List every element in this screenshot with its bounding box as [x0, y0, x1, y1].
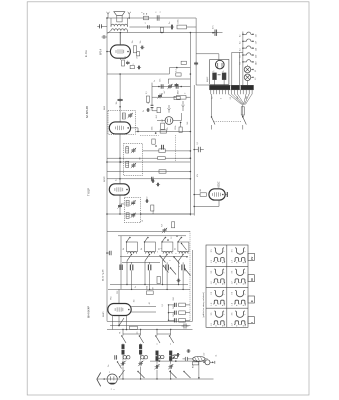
- wire v4 stem1: [112, 316, 114, 330]
- fuse Po1: [241, 105, 244, 116]
- wire if2 line: [143, 150, 159, 152]
- node node avc: [190, 131, 192, 133]
- wire Tr2 sec right down: [126, 30, 128, 32]
- capacitor padder pair 3: [157, 355, 164, 358]
- svg-text:1k: 1k: [141, 248, 143, 250]
- coil wafer: [157, 277, 160, 284]
- resistor R on y171: [159, 170, 166, 173]
- label kb unit 4: [175, 248, 177, 250]
- label tube label V2 adj: [104, 105, 106, 110]
- wire Tr2 sec left down: [108, 30, 111, 33]
- switch pushbutton unit 3 lever: [161, 237, 166, 243]
- resistor R tone: [130, 66, 134, 69]
- node node x120: [119, 106, 121, 108]
- capacitor C cl a: [160, 79, 163, 89]
- resistor R cl v: [157, 107, 161, 112]
- resistor R seg2: [172, 222, 175, 228]
- switch wafer row 1 half 1 fixed contact b: [220, 258, 225, 264]
- coil L osc b: [126, 213, 129, 219]
- wire eye right: [225, 194, 227, 196]
- svg-text:L19: L19: [204, 353, 206, 356]
- node node det v: [180, 122, 182, 124]
- wire y158 b: [165, 157, 190, 159]
- capacitor C filter 1 electrolytic: [212, 71, 216, 79]
- svg-text:30n: 30n: [160, 79, 162, 82]
- node node V2 out: [137, 131, 139, 133]
- wire fer drop: [198, 362, 200, 378]
- label tube label V4 adj: [103, 311, 105, 317]
- wire rf branch 3 mid: [156, 344, 158, 345]
- label pins row 2 half 2: [232, 270, 247, 284]
- capacitor padder pair 4: [171, 355, 178, 358]
- wire kb top bus: [118, 235, 186, 237]
- resistor R det v: [175, 126, 182, 133]
- svg-text:III: III: [250, 278, 254, 281]
- wire filter1 down: [214, 80, 216, 86]
- svg-text:100k: 100k: [151, 126, 153, 130]
- switch wafer row 2 half 2 moving contact: [235, 269, 245, 276]
- wire kb 2 down2: [149, 273, 150, 291]
- switch pushbutton unit 4 lever: [177, 237, 182, 243]
- svg-text:0,3: 0,3: [240, 35, 242, 37]
- wire right bus C: [193, 85, 195, 216]
- node node bot a: [173, 357, 175, 359]
- switch contact ant lever: [119, 370, 125, 378]
- switch wafer row 1 half 1 moving contact: [214, 248, 224, 255]
- capacitor C bias 2: [174, 311, 176, 315]
- band tab I: [248, 317, 254, 324]
- wire v4 stem3: [126, 316, 128, 330]
- resistor R eye series: [200, 189, 207, 197]
- capacitor C bot a: [176, 353, 180, 357]
- wire IF line: [136, 131, 191, 133]
- coil L4 (iron core): [169, 351, 172, 361]
- coil kb 3: [163, 252, 172, 254]
- svg-text:1k: 1k: [175, 248, 177, 250]
- switch wafer row 3 half 2 fixed contact a: [234, 300, 239, 306]
- svg-text:0,1: 0,1: [146, 92, 148, 95]
- wire osc out: [141, 213, 191, 215]
- capacitor C bias 1: [174, 303, 176, 307]
- node node eye cap: [193, 149, 195, 151]
- resistor R bias 2: [168, 311, 190, 315]
- wire kb 1 down: [126, 261, 127, 285]
- svg-text:1n: 1n: [154, 80, 156, 82]
- wire kb 1 down2: [131, 273, 132, 291]
- capacitor C if dark: [162, 145, 164, 150]
- switch wafer row 1 half 1 fixed contact a: [213, 258, 218, 264]
- switch kb contact 3a: [163, 254, 168, 261]
- svg-text:C9: C9: [124, 203, 126, 205]
- svg-text:+1: +1: [222, 71, 224, 73]
- svg-text:12: 12: [171, 237, 173, 239]
- svg-text:220: 220: [255, 55, 257, 58]
- tube V1 6P14 output pentode: [99, 45, 131, 58]
- transformer Tr2 primary: [111, 24, 127, 26]
- resistor R conn: [192, 362, 198, 368]
- wire cl y79: [168, 78, 190, 80]
- wire bus y214: [107, 213, 194, 215]
- wire rf branch 1 mid: [122, 344, 124, 345]
- svg-text:5: 5: [170, 260, 172, 261]
- switch contact band switch 6: [169, 371, 176, 378]
- coil L1 (iron core): [122, 345, 125, 355]
- label minus link: [218, 74, 221, 76]
- node node HT: [212, 32, 214, 34]
- coil kb 2: [146, 252, 155, 254]
- wire V2 out down: [137, 128, 139, 132]
- wire filter2 down: [223, 80, 225, 86]
- wire v4 row b: [131, 311, 156, 313]
- wire v4 row a: [131, 306, 156, 308]
- svg-text:47k: 47k: [167, 127, 169, 130]
- coil L if2b: [126, 161, 129, 167]
- svg-text:6,3: 6,3: [255, 78, 257, 80]
- node node if mid: [155, 145, 157, 147]
- node node v3 stem b: [119, 178, 121, 180]
- node node rfm c: [196, 360, 198, 362]
- coil kb 4: [179, 252, 188, 254]
- coil L if2a: [126, 147, 129, 153]
- node node kb left edge: [106, 252, 108, 254]
- label kb box label: [103, 269, 105, 281]
- capacitor padder pair 2: [141, 356, 148, 359]
- resistor R32 screen: [147, 285, 154, 295]
- tube V4 6K4P RF amp: [108, 304, 131, 316]
- resistor R V1 screen: [137, 52, 140, 56]
- switch wafer row 2 half 1 moving contact: [214, 269, 224, 276]
- svg-text:L6: L6: [142, 220, 144, 222]
- wire kb left vert: [120, 236, 122, 290]
- coil L2 (iron core): [139, 345, 142, 355]
- wire rf branch 4 mid: [170, 344, 172, 345]
- wire V1 cathode down: [119, 58, 121, 60]
- node node bus top: [190, 32, 192, 34]
- wire V1 top stub: [119, 33, 121, 39]
- node node y162 left: [106, 161, 108, 163]
- svg-text:5n: 5n: [169, 22, 171, 24]
- resistor R cl 2M2: [177, 90, 187, 100]
- svg-text:10n: 10n: [140, 41, 142, 44]
- wire y67.6: [169, 67, 190, 69]
- wire rf branch 4 top: [170, 329, 171, 336]
- wire rf inter b: [157, 333, 171, 335]
- wire fork1 stub: [182, 101, 184, 105]
- coil L if1: [122, 113, 125, 119]
- wire shield partition: [174, 135, 176, 162]
- capacitor C V1 cathode: [126, 61, 130, 65]
- node node v3 stem a: [119, 161, 121, 163]
- capacitor C wafer b: [176, 279, 180, 282]
- node node v4 a: [118, 325, 120, 327]
- band switch table frame: [206, 245, 248, 327]
- svg-text:5: 5: [155, 12, 157, 13]
- node node eye bottom: [193, 206, 195, 208]
- svg-text:110: 110: [255, 34, 257, 37]
- resistor R if v: [152, 139, 155, 144]
- wire x169 riser: [168, 68, 170, 74]
- svg-text:P1: P1: [120, 332, 122, 334]
- resistor R V1 anode load: [174, 96, 180, 99]
- node node y74 b: [190, 73, 192, 75]
- node node V1 left: [106, 51, 108, 53]
- switch contact wafer contact 4: [184, 268, 190, 275]
- node node ant: [103, 378, 105, 380]
- svg-text:4: 4: [221, 98, 223, 99]
- wire lamp link: [247, 81, 249, 86]
- svg-text:240: 240: [255, 62, 257, 65]
- svg-text:6E5C: 6E5C: [218, 181, 221, 187]
- switch kb contact 1a: [127, 254, 132, 261]
- resistor R on speaker line: [142, 12, 149, 20]
- svg-text:0,1: 0,1: [197, 142, 199, 145]
- wire V3 down: [119, 195, 121, 214]
- wire eye bottom b: [194, 205, 219, 207]
- band tab III: [248, 275, 254, 282]
- switch mains voltage tap 150: [240, 46, 258, 51]
- capacitor C kb left electrolytic: [120, 265, 122, 271]
- capacitor C bot b: [186, 349, 190, 353]
- capacitor C bus B bypass: [194, 61, 198, 65]
- svg-text:R43: R43: [173, 313, 175, 316]
- svg-text:0,1: 0,1: [116, 179, 118, 182]
- switch wafer row 3 half 2 fixed contact b: [241, 300, 246, 306]
- capacitor C agc corner: [182, 322, 189, 329]
- svg-text:0,3: 0,3: [240, 55, 242, 57]
- switch wafer row 2 half 1 fixed contact a: [213, 279, 218, 285]
- wire rf branch 1 low: [122, 354, 124, 360]
- switch wafer row 3 half 1 moving contact: [214, 290, 224, 297]
- wire y162 bus: [107, 161, 190, 163]
- switch pushbutton unit 1 lever: [126, 237, 131, 243]
- switch wafer row 3 half 1 fixed contact b: [220, 300, 225, 306]
- switch mains voltage tap 110: [240, 32, 258, 37]
- resistor R coupling: [175, 68, 181, 76]
- svg-text:1M: 1M: [200, 189, 202, 192]
- switch contact wafer contact 3: [170, 267, 176, 274]
- terminal fork grid cap 1: [182, 105, 185, 111]
- label pins row 1 half 1: [211, 249, 226, 263]
- switch kb contact 2a: [145, 254, 150, 261]
- svg-text:6,3: 6,3: [212, 97, 214, 99]
- switch wafer row 2 half 2 fixed contact b: [241, 279, 246, 285]
- node node y158 l: [119, 157, 121, 159]
- resistor R avc: [160, 130, 166, 133]
- wire Tr2 left lead up: [110, 18, 112, 27]
- wire antenna bus: [99, 378, 214, 380]
- resistor R on rf bus: [130, 326, 138, 329]
- label kb unit 1: [123, 248, 125, 250]
- wire kb 3 down2: [166, 273, 167, 291]
- switch wafer row 3 half 1 fixed contact a: [213, 300, 218, 306]
- wire dotted shield bus: [189, 231, 191, 321]
- svg-text:5: 5: [133, 64, 135, 65]
- wire kb 4 down2: [182, 273, 183, 291]
- svg-text:T 6I1P: T 6I1P: [87, 188, 91, 196]
- oscillator coil box (dashed): [124, 198, 140, 223]
- wire V3 stem: [119, 134, 121, 184]
- svg-text:4n7: 4n7: [164, 91, 166, 94]
- svg-text:30n: 30n: [134, 299, 136, 302]
- resistor R if3: [158, 157, 166, 160]
- node node y178: [190, 178, 192, 180]
- node node y158 r: [190, 157, 192, 159]
- wire kb bus 1: [110, 284, 188, 286]
- transformer kb unit 4 can: [178, 242, 189, 252]
- svg-text:270: 270: [136, 56, 138, 59]
- wire bus B to transformer: [196, 84, 209, 86]
- node node fuse bottom: [242, 115, 244, 117]
- capacitor C kb 2 electrolytic: [148, 262, 150, 272]
- wire kb 4 down: [178, 261, 179, 285]
- svg-text:0,1: 0,1: [162, 304, 164, 307]
- wire V1 left link: [107, 51, 110, 53]
- transformer kb unit 3 can: [162, 242, 173, 252]
- trimmer capacitor CT cl: [167, 84, 172, 89]
- terminal fork grid cap 2: [168, 108, 171, 113]
- node node det: [155, 132, 157, 134]
- resistor R if2: [159, 149, 165, 153]
- svg-text:C75: C75: [160, 357, 162, 360]
- wire feedback link: [130, 26, 171, 28]
- switch mains voltage tap 127: [240, 39, 258, 44]
- trimmer capacitor CT rf 3: [154, 364, 159, 369]
- wire D1 right: [173, 120, 182, 122]
- wire rf branch 3 low: [156, 361, 158, 364]
- band tab IV: [248, 253, 254, 260]
- wire cl y97: [152, 96, 176, 98]
- capacitor C ground top-left: [102, 35, 108, 39]
- wire x120 up: [119, 74, 121, 95]
- wire cl vert x152: [151, 83, 153, 104]
- trimmer capacitor CT cl2: [157, 93, 162, 98]
- capacitor C kb left edge: [107, 251, 111, 255]
- wire fb drop lead2: [161, 32, 163, 34]
- svg-text:0,3: 0,3: [240, 62, 242, 64]
- transformer Tr2 secondary: [111, 29, 127, 31]
- svg-text:E. Ko: E. Ko: [84, 50, 88, 57]
- wire HV loop: [232, 52, 243, 85]
- node node seg2: [167, 239, 169, 241]
- label tube type label 6I1P: [87, 188, 91, 196]
- svg-text:II: II: [250, 300, 254, 302]
- resistor R bias 3: [168, 319, 190, 323]
- wire y178.8: [107, 178, 190, 180]
- node node y214 left: [106, 213, 108, 215]
- capacitor C ground upper: [97, 24, 107, 28]
- wire feedback right: [187, 26, 197, 28]
- wire rf branch 2 top: [140, 329, 141, 336]
- svg-text:a: a: [109, 372, 111, 373]
- switch contact band switch 2: [139, 335, 144, 343]
- wire rf branch 4 bottom: [170, 370, 171, 380]
- tube V5 EM80 tuning indicator: [209, 189, 225, 200]
- trimmer capacitor CT rf 1: [120, 361, 125, 366]
- wire dashed y135: [140, 135, 159, 137]
- wire kb bus 2: [108, 288, 190, 290]
- wire mains fan: [229, 94, 253, 105]
- switch contact wafer contact 1: [159, 255, 165, 262]
- switch contact band switch 5: [137, 371, 144, 378]
- transformer kb unit 2 can: [144, 242, 155, 252]
- svg-text:6И1П: 6И1П: [104, 176, 106, 182]
- wire rf branch 2 low: [140, 354, 142, 360]
- trimmer capacitor CT2: [131, 148, 136, 153]
- wire rf branch 2 bottom: [140, 367, 141, 380]
- svg-text:130: 130: [125, 56, 127, 59]
- node node y214 b: [140, 213, 142, 215]
- node node rfm b: [175, 360, 177, 362]
- svg-text:5n: 5n: [135, 286, 137, 288]
- electrode eye target: [226, 192, 228, 197]
- resistor R osc grid: [151, 205, 154, 211]
- svg-text:1k: 1k: [159, 248, 161, 250]
- diode D1 detector: [165, 117, 173, 125]
- wire selector rail: [242, 32, 244, 86]
- label label EM80: [218, 181, 221, 187]
- lamp pilot 1: [244, 66, 257, 73]
- node node v4 b: [126, 329, 128, 331]
- svg-text:47k: 47k: [197, 174, 199, 177]
- capacitor C kb 4 electrolytic: [182, 262, 184, 272]
- capacitor C feedback: [169, 22, 174, 30]
- node speaker node a: [106, 17, 108, 19]
- trimmer capacitor CT rf 4: [168, 364, 173, 369]
- svg-text:2k: 2k: [185, 269, 187, 271]
- wire cl 2M2 right: [186, 96, 190, 98]
- wire y171.5: [107, 171, 190, 173]
- svg-text:Ш 21 Тд 58: Ш 21 Тд 58: [103, 269, 105, 281]
- switch contact band switch 7: [183, 371, 190, 378]
- wire right bus A: [189, 33, 191, 216]
- switch wafer row 2 half 1 fixed contact b: [220, 279, 225, 285]
- switch contact band switch 4: [169, 335, 174, 343]
- svg-text:6Ц4C: 6Ц4C: [207, 76, 209, 82]
- capacitor C det a: [146, 108, 150, 112]
- wire lamp top: [247, 65, 249, 66]
- wire fork2 stub: [168, 105, 170, 108]
- wire x120b: [119, 95, 121, 122]
- switch contact wafer contact 2: [173, 256, 179, 263]
- wire left bus vertical: [106, 18, 108, 231]
- switch wafer row 4 half 1 moving contact: [214, 311, 224, 318]
- svg-text:6,3: 6,3: [255, 70, 257, 72]
- IF transformer T1 shield (dashed box): [108, 111, 136, 135]
- resistor R grid leak: [181, 61, 186, 64]
- svg-text:25n: 25n: [132, 40, 134, 43]
- svg-text:180: 180: [153, 211, 155, 214]
- label tube label V3 adj: [104, 176, 106, 182]
- svg-text:30n: 30n: [116, 101, 118, 104]
- wire V2 out: [131, 127, 138, 129]
- switch contact band switch 1: [121, 335, 126, 343]
- speaker LS1: [114, 12, 125, 22]
- label tube type label 6K4P: [87, 306, 91, 318]
- label pins row 3 half 2: [232, 291, 247, 305]
- label pins row 3 half 1: [211, 291, 226, 305]
- wire fer right: [205, 358, 208, 360]
- switch wafer row 4 half 2 fixed contact b: [241, 321, 246, 327]
- wire kb 3 down: [162, 261, 163, 285]
- wire y158 a: [107, 157, 158, 159]
- trimmer capacitor CT3: [131, 163, 136, 168]
- speaker terminal fork right: [128, 12, 131, 18]
- labels component values: [108, 40, 218, 367]
- transformer Tr1 winding teeth: [211, 90, 252, 94]
- label winding voltages: [212, 96, 249, 99]
- svg-text:6P14: 6P14: [99, 48, 103, 55]
- svg-text:R42: R42: [173, 306, 175, 309]
